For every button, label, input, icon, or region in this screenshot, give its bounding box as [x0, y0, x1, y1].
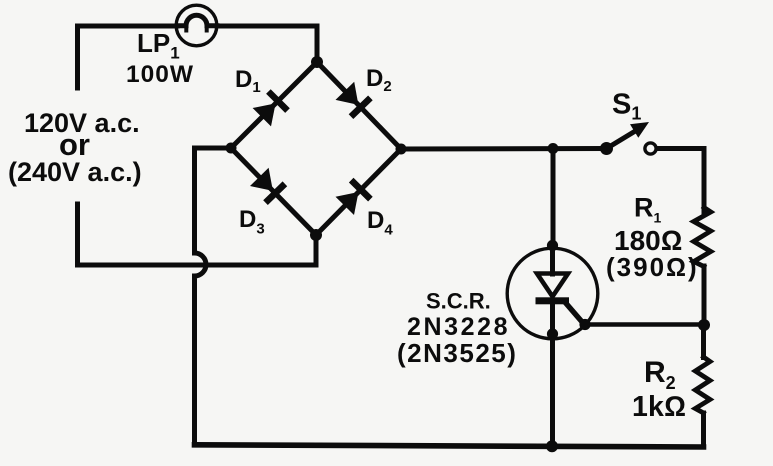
node R1/R2 junction	[698, 319, 710, 331]
svg-text:(2N3525): (2N3525)	[397, 338, 517, 368]
switch S1	[600, 122, 656, 155]
node bridge left junction	[226, 143, 237, 154]
node bottom rail / SCR cathode junction	[546, 440, 558, 452]
resistor R1	[694, 208, 711, 267]
node SCR cathode bottom dot	[547, 328, 558, 339]
svg-text:100W: 100W	[126, 61, 194, 88]
diode D4	[336, 178, 373, 215]
wire R2 bottom to bottom rail	[701, 413, 706, 447]
svg-text:1kΩ: 1kΩ	[632, 391, 686, 423]
wire AC source top to lamp	[78, 26, 178, 88]
wire bridge branch left-bottom	[231, 148, 316, 235]
node SCR gate junction	[579, 319, 590, 330]
wire SCR cathode to bottom rail	[550, 303, 555, 446]
node bridge bottom junction	[310, 229, 322, 241]
node SCR anode top dot	[547, 240, 558, 251]
wire lamp to bridge top	[217, 26, 317, 60]
wire R2 junction to zigzag	[701, 325, 706, 358]
SCR thyristor symbol	[536, 274, 584, 324]
wire bridge branch bottom-right	[316, 149, 401, 235]
resistor R2	[695, 357, 710, 413]
wire gate to R1/R2 junction	[585, 322, 704, 327]
svg-text:(390Ω): (390Ω)	[606, 252, 699, 282]
wire bottom rail	[195, 445, 704, 447]
wire SCR anode inner segment	[550, 246, 555, 274]
node bridge top junction	[311, 56, 323, 68]
diode D1	[253, 89, 290, 126]
wire R1 bottom to junction	[702, 266, 707, 325]
wire switch to R1 top corner	[656, 149, 704, 213]
wire bridge branch top-right	[317, 62, 401, 149]
svg-text:2N3228: 2N3228	[407, 313, 510, 341]
SCR U1 circle	[507, 248, 598, 339]
wire SCR anode from junction	[551, 149, 556, 245]
wire bridge left vertex down to bottom rail (hop crossover)	[195, 148, 207, 445]
node SCR anode / switch branch junction	[548, 143, 559, 154]
diode D2	[336, 82, 373, 119]
wire bridge branch left-top	[231, 62, 317, 148]
wire AC source bottom segment	[78, 204, 317, 265]
wire left vertex stub	[195, 146, 232, 151]
diode D3	[250, 168, 287, 205]
lamp LP1	[176, 5, 217, 46]
svg-text:S.C.R.: S.C.R.	[426, 289, 491, 314]
svg-text:(240V a.c.): (240V a.c.)	[8, 157, 142, 187]
wire right vertex to switch pivot	[401, 146, 604, 152]
node bridge right junction	[396, 144, 407, 155]
